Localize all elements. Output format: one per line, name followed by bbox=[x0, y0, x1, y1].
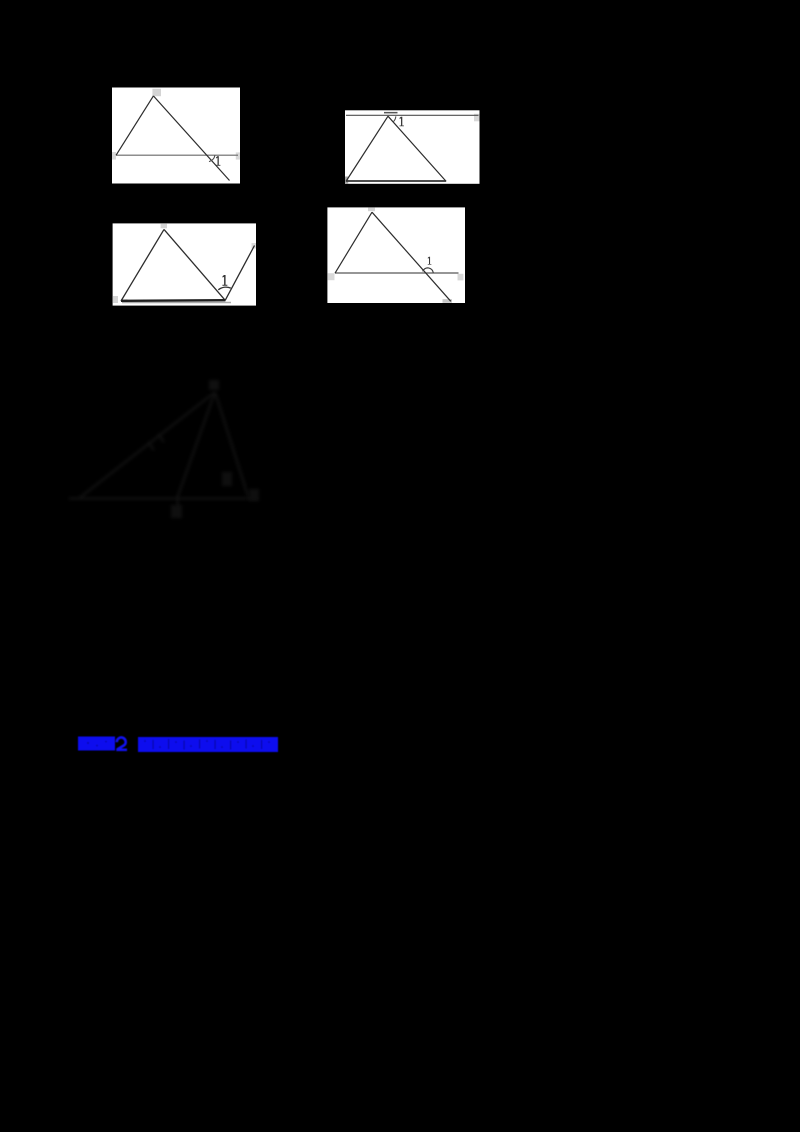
label 1 box1 bbox=[216, 156, 220, 166]
short stroke below base at D bbox=[178, 499, 179, 518]
handle box4 line right end bbox=[458, 274, 464, 281]
dark selection bar above apex box2 bbox=[384, 112, 398, 114]
triangle 2 base bbox=[346, 180, 446, 182]
triangle 3 right side bbox=[164, 229, 225, 300]
angle 1 arc box1 bbox=[209, 155, 215, 161]
triangle 3 left side bbox=[121, 229, 164, 301]
faint worked-example triangle figure (very dark on black) bbox=[69, 392, 258, 517]
blue heading title block bbox=[138, 737, 278, 752]
cevian AD bbox=[177, 392, 215, 499]
faint label A bbox=[209, 380, 219, 390]
triangle 4 left side bbox=[335, 212, 372, 273]
label 1 box3 bbox=[222, 275, 227, 286]
figure box 3 (second row left white panel) bbox=[113, 223, 256, 305]
handle box3 apex bbox=[161, 224, 167, 229]
triangle 2 left side bbox=[346, 116, 388, 181]
handle box1 line right end bbox=[236, 152, 240, 159]
blue heading group bbox=[78, 737, 278, 753]
slits simulating character gaps bbox=[144, 739, 270, 750]
blue digit 2 bbox=[117, 738, 126, 750]
figure box 2 (top-right white panel) bbox=[345, 110, 480, 184]
side AC bbox=[215, 392, 248, 496]
angle 1 arc box4 bbox=[423, 268, 434, 273]
dark pinholes in tag bbox=[87, 742, 89, 744]
label 1 box4 bbox=[428, 257, 432, 265]
handle box2 right end of top line bbox=[474, 114, 480, 122]
handle box1 line left end bbox=[112, 152, 116, 160]
faint label D below base bbox=[171, 505, 182, 518]
base line BD extended bbox=[69, 497, 258, 499]
label 1 box2 bbox=[400, 117, 404, 127]
triangle 2 right side bbox=[388, 116, 446, 181]
handle box4 bottom-right faint bbox=[443, 299, 453, 303]
handle box4 line left end bbox=[328, 273, 335, 280]
triangle 4 right side extended below line bbox=[372, 212, 451, 301]
faint label C right bbox=[249, 489, 259, 501]
figure box 4 (second row right white panel) bbox=[327, 207, 465, 303]
exterior ray box3 bbox=[225, 246, 254, 301]
handle box3 bottom-left bbox=[113, 296, 118, 303]
handle box2 bottom-left bbox=[345, 177, 348, 184]
triangle 4 base line extended right bbox=[335, 272, 459, 274]
figure box 1 (top-left white panel) bbox=[112, 88, 240, 184]
angle 1 arc box2 bbox=[393, 116, 396, 122]
faint label near E bbox=[222, 472, 232, 486]
handle box3 ray end bbox=[252, 243, 257, 249]
gray selection line under base box3 bbox=[122, 302, 231, 304]
side AB with ticks bbox=[80, 392, 215, 498]
tick mark 1 on AB bbox=[158, 434, 164, 442]
handle box4 apex bbox=[368, 208, 375, 212]
triangle 3 thick base bbox=[121, 299, 225, 302]
triangle 1 base line extended right bbox=[116, 154, 238, 156]
tick mark 2 on AB bbox=[148, 442, 154, 450]
handle box1 apex bbox=[152, 89, 161, 96]
top horizontal line box2 bbox=[346, 114, 479, 116]
triangle 1 left side bbox=[116, 96, 153, 155]
triangle 1 right side extended beyond base bbox=[153, 96, 229, 181]
blue tag block bbox=[78, 737, 115, 751]
angle 1 arc box3 bbox=[218, 287, 231, 290]
